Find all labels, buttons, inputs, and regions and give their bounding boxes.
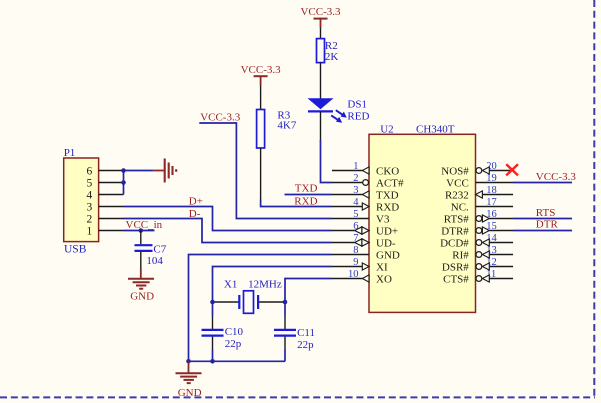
wire net RXD xyxy=(261,200,332,207)
resistor R2 designator xyxy=(325,40,338,52)
U2 pin 12 DSR# xyxy=(442,257,513,274)
P1 pin 5 stub wire xyxy=(99,182,124,184)
net label RTS xyxy=(536,207,556,219)
wire P1 pins 6-5-4 tie (vertical) xyxy=(123,171,125,195)
svg-text:12MHz: 12MHz xyxy=(248,279,282,291)
net label D+ xyxy=(189,196,203,208)
capacitor C10 xyxy=(202,330,224,336)
svg-text:RTS: RTS xyxy=(536,207,556,219)
svg-text:DS1: DS1 xyxy=(347,99,367,111)
crystal X1 value 12MHz xyxy=(248,279,282,291)
net label VCC_in xyxy=(126,219,163,231)
crystal X1 designator xyxy=(224,279,237,291)
P1 pin 2 number xyxy=(87,213,93,225)
svg-text:C11: C11 xyxy=(297,327,315,339)
resistor R3 top lead xyxy=(260,86,262,110)
svg-text:V3: V3 xyxy=(376,213,390,225)
capacitor C7 xyxy=(135,245,153,251)
wire net XI xyxy=(213,267,333,303)
svg-text:22p: 22p xyxy=(225,338,242,350)
svg-text:TXD: TXD xyxy=(376,189,399,201)
wire to chassis ground xyxy=(124,170,154,172)
power port VCC-3.3 (R2) xyxy=(300,6,341,27)
capacitor C10 value 22p xyxy=(225,338,242,350)
svg-text:VCC: VCC xyxy=(446,177,469,189)
capacitor C11 top lead xyxy=(284,302,286,329)
wire LED to ACT# pin xyxy=(321,140,333,183)
capacitor C10 designator xyxy=(225,326,244,338)
IC U2 CH340T body xyxy=(369,134,476,312)
svg-text:D+: D+ xyxy=(189,196,203,208)
LED DS1 value RED xyxy=(347,111,369,123)
wire net D- xyxy=(124,219,333,243)
svg-text:3: 3 xyxy=(87,201,93,213)
P1 pin 6 number xyxy=(87,165,93,177)
P1 pin 1 number xyxy=(87,225,93,237)
capacitor C7 designator xyxy=(153,243,166,255)
svg-text:4: 4 xyxy=(87,189,93,201)
capacitor C11 xyxy=(274,330,296,336)
svg-text:VCC_in: VCC_in xyxy=(126,219,163,231)
svg-text:CTS#: CTS# xyxy=(443,273,469,285)
junction P1 pin5 node xyxy=(121,180,126,185)
resistor R3 designator xyxy=(277,109,290,121)
LED DS1 emission arrows xyxy=(331,110,347,123)
resistor R2 top lead xyxy=(320,28,322,39)
svg-text:VCC-3.3: VCC-3.3 xyxy=(300,6,341,18)
net label DTR xyxy=(536,219,559,231)
resistor R3 value 4K7 xyxy=(277,120,296,132)
svg-text:22p: 22p xyxy=(297,339,314,351)
U2 pin 18 R232 xyxy=(445,185,513,202)
U2 pin 8 GND xyxy=(332,245,400,262)
svg-text:VCC-3.3: VCC-3.3 xyxy=(200,112,241,124)
LED DS1 designator xyxy=(347,99,367,111)
LED DS1 xyxy=(308,98,334,111)
junction ground rail / C10 xyxy=(210,359,215,364)
U2 pin 13 RI# xyxy=(452,245,513,262)
svg-text:CH340T: CH340T xyxy=(416,124,455,136)
net label VCC-3.3 (right) xyxy=(536,171,577,183)
svg-text:RXD: RXD xyxy=(376,201,399,213)
wire net VCC_in xyxy=(124,230,155,232)
U2 pin 1 CKO xyxy=(332,161,399,178)
chassis ground symbol xyxy=(154,159,176,183)
capacitor C11 designator xyxy=(297,327,315,339)
ground label GND (C7) xyxy=(130,290,154,302)
U2 pin 10 XO xyxy=(332,269,392,286)
svg-text:VCC-3.3: VCC-3.3 xyxy=(241,64,282,76)
junction P1 pin6 node xyxy=(121,168,126,173)
wire net DTR xyxy=(513,230,572,232)
svg-text:RED: RED xyxy=(347,111,369,123)
net label VCC-3.3 (V3 net) xyxy=(200,112,241,124)
wire net RTS xyxy=(513,218,572,220)
U2 pin 15 DTR# xyxy=(441,221,513,238)
svg-text:C7: C7 xyxy=(153,243,166,255)
wire net VCC-3.3 to V3 pin xyxy=(199,123,332,219)
U2 pin 19 VCC xyxy=(446,173,513,190)
U2 pin 11 CTS# xyxy=(443,269,513,286)
U2 pin 16 RTS# xyxy=(444,209,513,226)
crystal X1 xyxy=(239,291,258,314)
junction VCC_in / C7 xyxy=(139,228,144,233)
P1 pin 4 number xyxy=(87,189,93,201)
svg-text:XI: XI xyxy=(376,261,388,273)
svg-text:CKO: CKO xyxy=(376,165,399,177)
svg-text:2: 2 xyxy=(87,213,93,225)
svg-text:TXD: TXD xyxy=(295,183,318,195)
wire net XO xyxy=(285,279,332,303)
junction crystal left node xyxy=(210,300,215,305)
wire net VCC-3.3 (pin 19) xyxy=(513,182,572,184)
net label D- xyxy=(189,208,201,220)
P1 pin 5 number xyxy=(87,177,93,189)
LED DS1 cathode lead xyxy=(320,111,322,141)
U2 pin 7 UD- xyxy=(332,233,396,250)
svg-text:P1: P1 xyxy=(64,147,76,159)
P1 pin 4 stub wire xyxy=(99,194,124,196)
svg-text:NOS#: NOS# xyxy=(441,165,469,177)
IC U2 designator xyxy=(380,124,393,136)
capacitor C11 value 22p xyxy=(297,339,314,351)
wire net GND from U2 pin 8 xyxy=(189,255,333,362)
resistor R3 bottom lead xyxy=(260,148,262,200)
wire net D+ xyxy=(124,207,333,231)
resistor R2 xyxy=(317,39,325,63)
U2 pin 5 V3 xyxy=(332,209,390,226)
svg-text:UD+: UD+ xyxy=(376,225,398,237)
svg-text:DCD#: DCD# xyxy=(440,237,469,249)
U2 pin 2 ACT# xyxy=(332,173,404,190)
svg-text:RI#: RI# xyxy=(452,249,469,261)
wire ground rail xyxy=(189,360,286,362)
capacitor C7 value 104 xyxy=(146,255,163,267)
capacitor C10 bottom lead xyxy=(212,337,214,362)
svg-text:RTS#: RTS# xyxy=(444,213,470,225)
ground label GND (rail) xyxy=(178,387,202,399)
svg-text:UD-: UD- xyxy=(376,237,396,249)
power port VCC-3.3 (R3) xyxy=(241,64,282,86)
svg-text:DSR#: DSR# xyxy=(442,261,469,273)
wire R2 to LED anode xyxy=(320,63,322,99)
svg-text:NC.: NC. xyxy=(451,201,469,213)
U2 pin 6 UD+ xyxy=(332,221,398,238)
svg-text:4K7: 4K7 xyxy=(277,120,296,132)
connector P1 value label USB xyxy=(64,243,87,255)
svg-text:VCC-3.3: VCC-3.3 xyxy=(536,171,577,183)
svg-text:RXD: RXD xyxy=(294,195,317,207)
capacitor C11 bottom lead xyxy=(284,337,286,362)
U2 pin 3 TXD xyxy=(332,185,399,202)
svg-text:2K: 2K xyxy=(325,51,339,63)
crystal X1 right lead xyxy=(259,301,285,303)
U2 pin 17 NC. xyxy=(451,197,513,214)
junction crystal right node xyxy=(283,300,288,305)
svg-text:C10: C10 xyxy=(225,326,244,338)
no-ERC marker on pin 20 xyxy=(506,164,518,175)
svg-text:D-: D- xyxy=(189,208,201,220)
svg-text:USB: USB xyxy=(64,243,87,255)
net label TXD xyxy=(295,183,318,195)
svg-text:R232: R232 xyxy=(445,189,469,201)
svg-text:104: 104 xyxy=(146,255,163,267)
P1 pin 3 stub wire xyxy=(99,206,124,208)
ground symbol GND (C7) xyxy=(128,269,154,289)
IC U2 part number CH340T xyxy=(416,124,455,136)
resistor R3 xyxy=(257,110,265,149)
svg-text:DTR: DTR xyxy=(536,219,559,231)
svg-text:X1: X1 xyxy=(224,279,237,291)
capacitor C7 top lead xyxy=(140,231,142,245)
P1 pin 6 stub wire xyxy=(99,170,124,172)
U2 pin 20 NOS# xyxy=(441,161,513,178)
P1 pin 2 stub wire xyxy=(99,218,124,220)
crystal X1 left lead xyxy=(213,301,239,303)
svg-text:1: 1 xyxy=(87,225,93,237)
P1 pin 1 stub wire xyxy=(99,230,124,232)
connector P1 designator xyxy=(64,147,76,159)
U2 pin 4 RXD xyxy=(332,197,399,214)
junction ground rail / GND symbol xyxy=(186,359,191,364)
U2 pin 14 DCD# xyxy=(440,233,513,250)
svg-text:U2: U2 xyxy=(380,124,393,136)
svg-text:5: 5 xyxy=(87,177,93,189)
capacitor C10 top lead xyxy=(212,302,214,329)
wire net TXD xyxy=(285,194,333,196)
resistor R2 value 2K xyxy=(325,51,339,63)
svg-text:GND: GND xyxy=(178,387,202,399)
svg-text:DTR#: DTR# xyxy=(441,225,469,237)
U2 pin 9 XI xyxy=(332,257,388,274)
svg-text:GND: GND xyxy=(376,249,400,261)
P1 pin 3 number xyxy=(87,201,93,213)
svg-text:XO: XO xyxy=(376,273,392,285)
capacitor C7 bottom lead xyxy=(140,252,142,269)
svg-text:6: 6 xyxy=(87,165,93,177)
ground symbol GND (rail) xyxy=(176,361,202,383)
net label RXD xyxy=(294,195,317,207)
svg-text:ACT#: ACT# xyxy=(376,177,404,189)
connector P1 (USB) body xyxy=(64,158,99,242)
svg-text:GND: GND xyxy=(130,290,154,302)
